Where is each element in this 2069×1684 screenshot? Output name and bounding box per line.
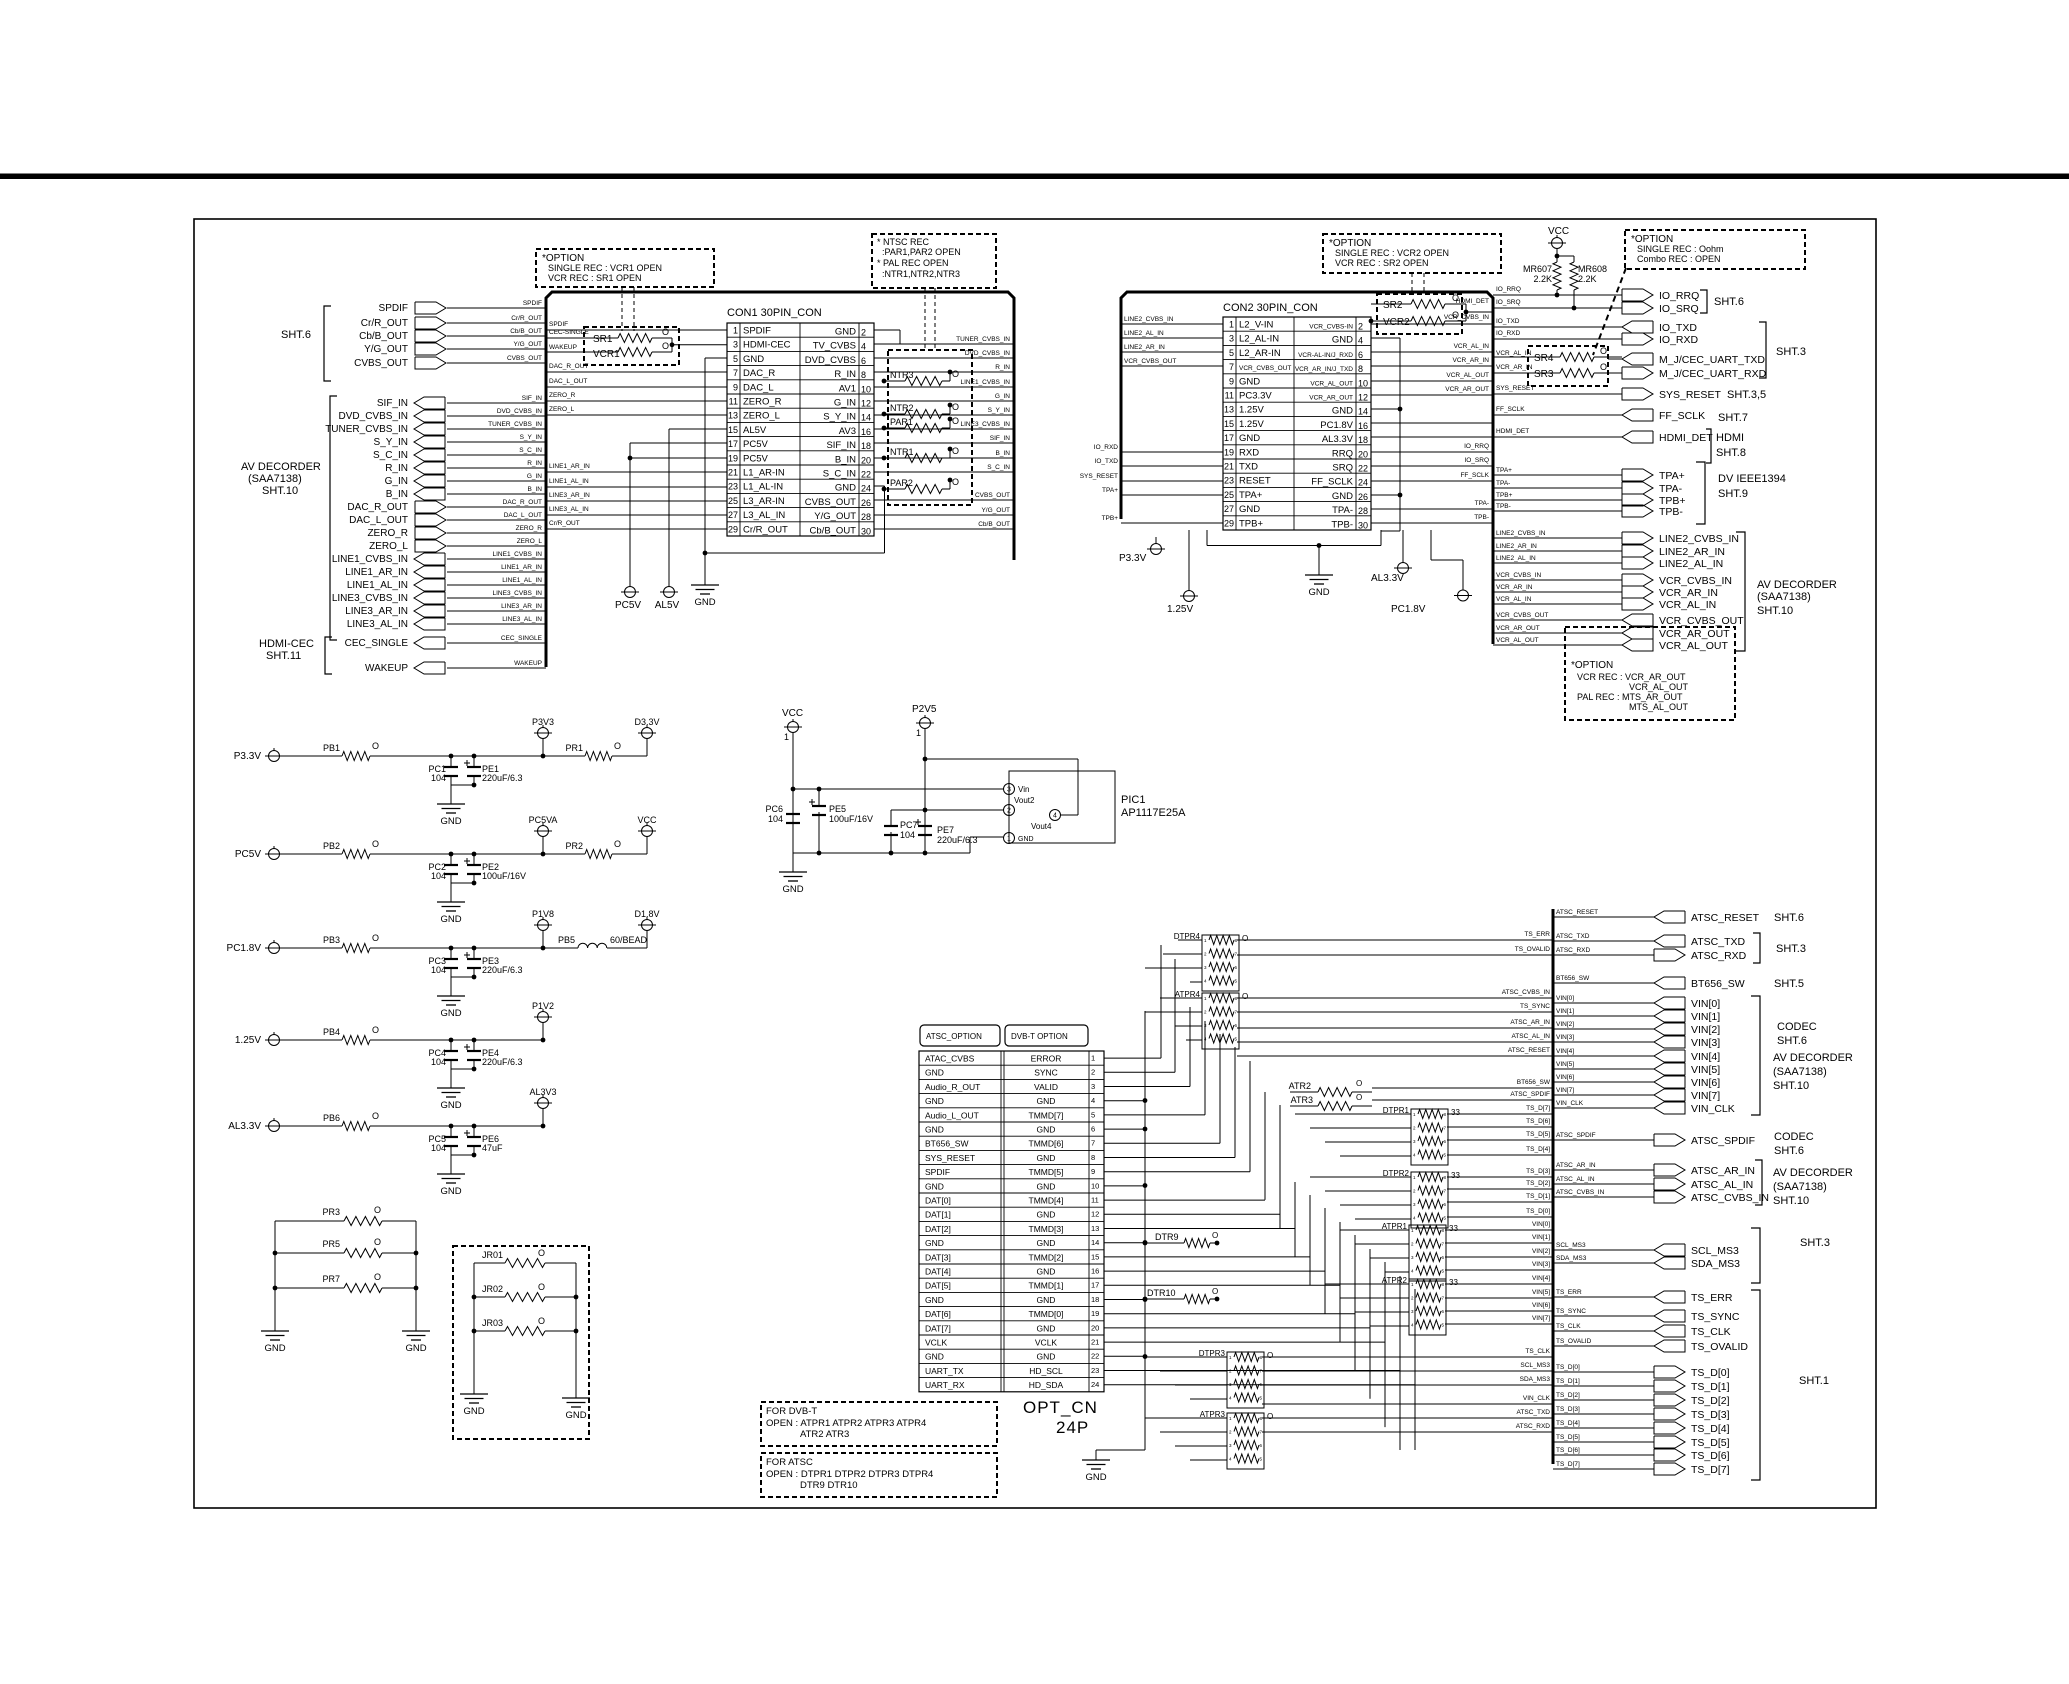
port arrow FF_SCLK: [1622, 409, 1653, 421]
svg-text:(SAA7138): (SAA7138): [1757, 591, 1811, 603]
wire IO_RXD: [1493, 338, 1622, 340]
svg-text:ATSC_CVBS_IN: ATSC_CVBS_IN: [1502, 989, 1551, 996]
svg-text:VIN[2]: VIN[2]: [1532, 1248, 1550, 1255]
svg-text:ATR2 ATR3: ATR2 ATR3: [800, 1429, 849, 1440]
wire ATSC_CVBS_IN to bus: [1237, 997, 1553, 999]
svg-text:SDA_MS3: SDA_MS3: [1691, 1258, 1740, 1270]
svg-text:P1V8: P1V8: [532, 909, 554, 919]
port arrow TS_D[1]: [1654, 1380, 1685, 1392]
svg-text:TS_SYNC: TS_SYNC: [1691, 1311, 1740, 1323]
wire TS_D[4] to bus: [1447, 1154, 1553, 1156]
wire LINE1_AR_IN bus to CON1: [546, 471, 727, 473]
svg-text:WAKEUP: WAKEUP: [365, 663, 408, 674]
wire CON2 pin VCR_AR_IN: [1371, 365, 1493, 367]
svg-text:24: 24: [1091, 1380, 1099, 1389]
svg-text:NTR2: NTR2: [890, 403, 914, 413]
power terminal AL3.3V: [269, 1121, 280, 1132]
svg-text:Cr/R_OUT: Cr/R_OUT: [743, 524, 788, 535]
svg-text:ATSC_SPDIF: ATSC_SPDIF: [1510, 1091, 1550, 1098]
wire TS_OVALID to bus: [1237, 954, 1553, 956]
svg-text:VIN[3]: VIN[3]: [1556, 1034, 1574, 1041]
svg-text:23: 23: [1224, 476, 1234, 486]
svg-text:GND: GND: [1037, 1323, 1056, 1333]
svg-text:3: 3: [1007, 787, 1011, 794]
svg-text:LINE1_CVBS_IN: LINE1_CVBS_IN: [493, 551, 543, 558]
svg-text:SPDIF: SPDIF: [379, 303, 408, 314]
svg-text:VIN[2]: VIN[2]: [1691, 1024, 1720, 1036]
svg-text:VCR_CVBS_OUT: VCR_CVBS_OUT: [1239, 365, 1291, 372]
wire B_IN to bus: [447, 493, 546, 495]
wire OPT_CN pin 15: [1104, 1256, 1310, 1258]
svg-text:IO_RXD: IO_RXD: [1094, 444, 1119, 451]
bracket SHT.6 right: [1700, 290, 1707, 313]
svg-text:LINE2_CVBS_IN: LINE2_CVBS_IN: [1124, 316, 1174, 323]
wire pin2 GND jog: [874, 329, 900, 331]
svg-text:VCR1: VCR1: [593, 349, 620, 360]
svg-text:O: O: [374, 1237, 381, 1247]
svg-text:SHT.3: SHT.3: [1776, 943, 1806, 955]
wire IO_TXD: [1493, 326, 1622, 328]
module bus outline CON1 (thick): [546, 292, 1014, 667]
svg-text:SDA_MS3: SDA_MS3: [1556, 1255, 1587, 1262]
resistor PR5 0ohm: [275, 1252, 344, 1254]
resistor PB3 0ohm: [283, 947, 342, 949]
svg-text:11: 11: [1225, 391, 1234, 401]
wire Cr/R_OUT to bus: [447, 322, 546, 324]
wire GND net vertical CON2 right: [1399, 338, 1401, 531]
wire OPT_CN pin 2: [1104, 1071, 1175, 1073]
svg-text:LINE3_CVBS_IN: LINE3_CVBS_IN: [332, 593, 408, 604]
wire CON2 pin AL3.3V: [1371, 436, 1493, 438]
svg-text:FF_SCLK: FF_SCLK: [1496, 406, 1525, 413]
wire Vout2 net: [891, 809, 1003, 811]
wire VIN[7] to bus: [1445, 1323, 1553, 1325]
wire LINE1_AR_IN to bus: [447, 571, 546, 573]
svg-text:GND: GND: [1239, 376, 1260, 387]
svg-text:25: 25: [1224, 490, 1234, 500]
svg-text:LINE2_AL_IN: LINE2_AL_IN: [1496, 555, 1536, 562]
svg-text:HDMI_DET: HDMI_DET: [1456, 298, 1489, 305]
wire ATSC_AR_IN to bus: [1237, 1027, 1553, 1029]
svg-text:3: 3: [733, 340, 738, 350]
svg-text:TS_OVALID: TS_OVALID: [1691, 1341, 1748, 1353]
svg-text:TS_D[0]: TS_D[0]: [1556, 1364, 1580, 1371]
svg-text:2: 2: [1091, 1068, 1095, 1077]
port arrow IO_RXD: [1622, 333, 1653, 345]
wire OPT_CN pin 13: [1104, 1228, 1295, 1230]
svg-text:TS_D[7]: TS_D[7]: [1556, 1461, 1580, 1468]
resistor PR7 0ohm: [275, 1287, 344, 1289]
wire CON2 pin TPB-: [1371, 522, 1493, 524]
wire OPT_CN pin 9: [1104, 1171, 1250, 1173]
svg-text:SR3: SR3: [1534, 369, 1554, 380]
svg-text:P3V3: P3V3: [532, 717, 554, 727]
svg-text:AV1: AV1: [839, 383, 856, 394]
wire ZERO_R bus to CON1: [546, 400, 727, 402]
svg-text:GND: GND: [1037, 1153, 1056, 1163]
svg-text:GND: GND: [1037, 1295, 1056, 1305]
svg-text:VCR_AR_IN: VCR_AR_IN: [1496, 584, 1533, 591]
power terminal PC1.8V: [269, 943, 280, 954]
wire OPT_CN pin 21: [1104, 1341, 1385, 1343]
svg-text:BT656_SW: BT656_SW: [1691, 978, 1745, 990]
svg-text:G_IN: G_IN: [834, 398, 856, 409]
wire OPT_CN pin 16: [1104, 1270, 1325, 1272]
svg-text:JR02: JR02: [482, 1284, 503, 1294]
capacitor PC1 104: [450, 756, 452, 767]
wire ATSC_TXD bus to port: [1553, 940, 1654, 942]
svg-text:TPA-: TPA-: [1659, 483, 1683, 495]
svg-text:VIN[4]: VIN[4]: [1691, 1051, 1720, 1063]
svg-text:GND: GND: [694, 597, 715, 608]
svg-text:TS_D[2]: TS_D[2]: [1691, 1395, 1730, 1407]
svg-text:TS_D[0]: TS_D[0]: [1691, 1367, 1730, 1379]
svg-text:SYS_RESET: SYS_RESET: [1080, 473, 1118, 480]
svg-text:SYNC: SYNC: [1034, 1068, 1058, 1078]
capacitor PE2 100uF/16V: [473, 854, 475, 865]
wire OPT_CN pin 4: [1104, 1100, 1145, 1102]
svg-text:P3.3V: P3.3V: [234, 751, 262, 762]
wire pin17/19 PC5V down: [630, 442, 727, 444]
power terminal PC1.8V: [1430, 530, 1432, 560]
ground: [437, 803, 465, 805]
svg-text:IO_TXD: IO_TXD: [1095, 458, 1119, 465]
svg-text:PR3: PR3: [322, 1207, 340, 1217]
port arrow ATSC_CVBS_IN: [1654, 1191, 1685, 1203]
svg-text:RRQ: RRQ: [1332, 448, 1353, 459]
svg-text:VIN[6]: VIN[6]: [1532, 1302, 1550, 1309]
svg-text:CON2 30PIN_CON: CON2 30PIN_CON: [1223, 302, 1318, 314]
ground left: [261, 1330, 289, 1332]
wire IO_SRQ: [1493, 307, 1622, 309]
wire OPT_CN pin 12: [1104, 1213, 1280, 1215]
ladder rails: [274, 1221, 276, 1331]
svg-text:ATSC_RESET: ATSC_RESET: [1556, 909, 1598, 916]
wire VCR_AL_IN: [1493, 603, 1622, 605]
svg-text:SYS_RESET: SYS_RESET: [1496, 385, 1534, 392]
port arrow TPA+: [1622, 469, 1653, 481]
svg-text:P3.3V: P3.3V: [1119, 553, 1147, 564]
resistor network DTPR3: [1227, 1352, 1264, 1408]
wire CON2 pin GND4: [1371, 337, 1400, 339]
svg-text:LINE1_AL_IN: LINE1_AL_IN: [502, 577, 542, 584]
svg-text:LINE2_AR_IN: LINE2_AR_IN: [1659, 546, 1725, 558]
svg-text:GND: GND: [463, 1406, 484, 1417]
svg-text:PC1.8V: PC1.8V: [1320, 420, 1353, 431]
dashed leader diagonal to SR4 box: [1593, 268, 1626, 355]
svg-text:1: 1: [1091, 1054, 1095, 1063]
svg-text:L1_AL-IN: L1_AL-IN: [743, 482, 783, 493]
svg-text:NTR1: NTR1: [890, 447, 914, 457]
svg-text:DTR9: DTR9: [1155, 1232, 1179, 1242]
wire LINE3_AR_IN bus to CON1: [546, 500, 727, 502]
svg-text:SHT.6: SHT.6: [1774, 1145, 1804, 1157]
svg-text:TS_CLK: TS_CLK: [1691, 1326, 1731, 1338]
svg-text:RESET: RESET: [1239, 476, 1271, 487]
port arrow TS_D[5]: [1654, 1436, 1685, 1448]
wire Cb/B_OUT to bus: [447, 335, 546, 337]
svg-text:Y/G_OUT: Y/G_OUT: [513, 341, 542, 348]
wire FF_SCLK: [1493, 414, 1622, 416]
svg-text:B_IN: B_IN: [996, 450, 1011, 457]
svg-text:LINE1_AL_IN: LINE1_AL_IN: [347, 580, 408, 591]
option dashed box SR4/SR3: [1528, 346, 1608, 386]
bracket SHT.6 group: [324, 306, 331, 381]
svg-text:FF_SCLK: FF_SCLK: [1659, 410, 1705, 422]
svg-text:20: 20: [1091, 1323, 1099, 1332]
option dashed box SR1/VCR1: [584, 327, 679, 365]
wire TS_D[3] bus to port: [1553, 1413, 1654, 1415]
svg-text:PC5V: PC5V: [615, 600, 641, 611]
svg-text:L2_AR-IN: L2_AR-IN: [1239, 348, 1281, 359]
svg-text:S_C_IN: S_C_IN: [373, 450, 408, 461]
svg-text:AV DECORDER: AV DECORDER: [241, 461, 321, 473]
svg-text:ERROR: ERROR: [1031, 1054, 1062, 1064]
svg-text:BT656_SW: BT656_SW: [1517, 1079, 1551, 1086]
wire CON2 pin GND26: [1371, 494, 1400, 496]
svg-text:30: 30: [861, 526, 871, 536]
svg-text:TPA-: TPA-: [1496, 480, 1510, 487]
svg-text:PB2: PB2: [323, 841, 340, 851]
svg-text:DAC_L_OUT: DAC_L_OUT: [504, 512, 542, 519]
svg-text:GND: GND: [1037, 1267, 1056, 1277]
wire CON2 pin VCR_AL_IN: [1371, 351, 1493, 353]
port arrow TPB+: [1622, 494, 1653, 506]
svg-text:PR2: PR2: [565, 841, 583, 851]
ground right: [402, 1330, 430, 1332]
svg-text:WAKEUP: WAKEUP: [514, 660, 542, 667]
wire M_J/CEC_UART_TXD: [1608, 358, 1622, 360]
svg-text:VCR_AL_OUT: VCR_AL_OUT: [1629, 682, 1689, 692]
svg-text:Audio_R_OUT: Audio_R_OUT: [925, 1082, 980, 1092]
wire SDA_MS3 bus to port: [1553, 1262, 1654, 1264]
svg-text:TS_D[6]: TS_D[6]: [1556, 1447, 1580, 1454]
svg-text:1: 1: [784, 732, 789, 742]
svg-text:TPB-: TPB-: [1496, 503, 1511, 510]
svg-text:28: 28: [1358, 506, 1368, 516]
svg-text:MR607: MR607: [1523, 264, 1552, 274]
wire mesh verticals (array region): [1160, 945, 1162, 1058]
wire ZERO_R to bus: [447, 532, 546, 534]
port arrow VCR_CVBS_OUT: [1622, 614, 1653, 626]
svg-text:SR2: SR2: [1383, 300, 1403, 311]
svg-text:B_IN: B_IN: [386, 489, 408, 500]
svg-text:TPB+: TPB+: [1239, 518, 1263, 529]
svg-text:Vout4: Vout4: [1031, 822, 1052, 831]
wire TPA+: [1493, 474, 1622, 476]
resistor JR01 0ohm: [474, 1262, 505, 1264]
svg-text:DTR9 DTR10: DTR9 DTR10: [800, 1480, 858, 1491]
svg-text:AP1117E25A: AP1117E25A: [1121, 807, 1186, 819]
svg-text:IO_SRQ: IO_SRQ: [1659, 303, 1699, 315]
svg-text:O: O: [538, 1248, 545, 1258]
wire OPT_CN pin 14: [1104, 1242, 1145, 1244]
svg-text:6: 6: [1358, 350, 1363, 360]
svg-text:TUNER_CVBS_IN: TUNER_CVBS_IN: [956, 336, 1010, 343]
svg-text:MTS_AL_OUT: MTS_AL_OUT: [1629, 702, 1689, 712]
wire ATSC_TXD to bus: [1262, 1417, 1553, 1419]
svg-text:220uF/6.3: 220uF/6.3: [482, 965, 523, 975]
svg-text:PE5: PE5: [829, 804, 846, 814]
wire VCR_CVBS_OUT: [1493, 619, 1622, 621]
power terminal D1.8V: [646, 931, 648, 949]
svg-text:O: O: [538, 1316, 545, 1326]
svg-text:CON1 30PIN_CON: CON1 30PIN_CON: [727, 307, 822, 319]
port arrow VCR_AL_OUT: [1622, 639, 1653, 651]
svg-text:CVBS_OUT: CVBS_OUT: [507, 355, 542, 362]
svg-text:24: 24: [1358, 478, 1368, 488]
svg-text:TMMD[6]: TMMD[6]: [1029, 1139, 1064, 1149]
svg-text:GND: GND: [440, 1186, 461, 1197]
svg-text:ZERO_L: ZERO_L: [743, 411, 780, 422]
svg-text:TS_D[2]: TS_D[2]: [1526, 1180, 1550, 1187]
svg-text:SIF_IN: SIF_IN: [990, 435, 1011, 442]
ground: [437, 995, 465, 997]
port arrow ATSC_RXD: [1654, 949, 1685, 961]
pin 1 GND: [1004, 833, 1015, 844]
bracket HDMI-CEC group: [325, 637, 332, 674]
wire ATSC_AR_IN bus to port: [1553, 1169, 1654, 1171]
svg-text:33: 33: [1451, 1108, 1460, 1117]
svg-text:OPT_CN: OPT_CN: [1023, 1398, 1098, 1417]
wire SCL_MS3 to bus: [1262, 1370, 1553, 1372]
svg-text:8: 8: [861, 370, 866, 380]
wire CON2 pin RRQ: [1371, 451, 1493, 453]
svg-text:4: 4: [1358, 336, 1363, 346]
svg-text:PC5V: PC5V: [743, 453, 768, 464]
svg-text:LINE3_CVBS_IN: LINE3_CVBS_IN: [961, 421, 1011, 428]
svg-text:TS_CLK: TS_CLK: [1525, 1348, 1550, 1355]
svg-text:100uF/16V: 100uF/16V: [482, 871, 526, 881]
pin 4 Vout4: [1050, 810, 1061, 821]
svg-text:S_Y_IN: S_Y_IN: [823, 412, 856, 423]
svg-text:S_Y_IN: S_Y_IN: [520, 434, 543, 441]
svg-text:DAT[1]: DAT[1]: [925, 1210, 951, 1220]
svg-text:DV IEEE1394: DV IEEE1394: [1718, 473, 1786, 485]
wire VIN[1] bus to port: [1553, 1015, 1654, 1017]
wire LINE2_CVBS_IN: [1493, 537, 1622, 539]
svg-text:SHT.10: SHT.10: [262, 485, 298, 497]
svg-text:GND: GND: [440, 816, 461, 827]
svg-text:VIN[0]: VIN[0]: [1556, 995, 1574, 1002]
svg-text:100uF/16V: 100uF/16V: [829, 814, 873, 824]
svg-text:DTR10: DTR10: [1147, 1288, 1176, 1298]
svg-text:9: 9: [733, 382, 738, 392]
svg-text:ATSC_RESET: ATSC_RESET: [1691, 912, 1760, 924]
port arrow TS_D[6]: [1654, 1449, 1685, 1461]
svg-text:DVD_CVBS_IN: DVD_CVBS_IN: [497, 408, 542, 415]
svg-text:1: 1: [733, 326, 738, 336]
bracket HDMI right: [1706, 429, 1711, 463]
power terminal PC5V below CON1: [625, 587, 636, 598]
bracket TS group SHT.1: [1751, 1290, 1760, 1480]
svg-text:11: 11: [729, 397, 738, 407]
svg-text:DAC_R_OUT: DAC_R_OUT: [549, 363, 588, 370]
svg-text:ATSC_CVBS_IN: ATSC_CVBS_IN: [1691, 1192, 1769, 1204]
svg-text:AV DECORDER: AV DECORDER: [1773, 1052, 1853, 1064]
svg-text:O: O: [374, 1205, 381, 1215]
svg-text:R_IN: R_IN: [527, 460, 542, 467]
wire TS_ERR bus to port: [1553, 1296, 1654, 1298]
svg-text:SHT.10: SHT.10: [1773, 1080, 1809, 1092]
bracket AV DECORDER right: [1736, 532, 1745, 651]
wire CON2 pin PC1.8V: [1371, 422, 1493, 424]
svg-text:O: O: [952, 402, 959, 412]
svg-text:PC5V: PC5V: [235, 849, 261, 860]
svg-text:TS_D[4]: TS_D[4]: [1526, 1146, 1550, 1153]
svg-text:GND: GND: [1239, 504, 1260, 515]
svg-text:GND: GND: [925, 1352, 944, 1362]
svg-text:TS_D[7]: TS_D[7]: [1691, 1464, 1730, 1476]
svg-text:PR1: PR1: [565, 743, 583, 753]
svg-text:SRQ: SRQ: [1332, 463, 1353, 474]
wire R_IN CON1 to module edge: [874, 371, 1014, 373]
svg-text:GND: GND: [1085, 1472, 1106, 1483]
svg-text:10: 10: [1358, 378, 1368, 388]
svg-text:VIN[7]: VIN[7]: [1691, 1090, 1720, 1102]
svg-text:P2V5: P2V5: [912, 704, 937, 715]
svg-text:TS_D[2]: TS_D[2]: [1556, 1392, 1580, 1399]
port arrow IO_TXD: [1622, 321, 1653, 333]
svg-text:S_C_IN: S_C_IN: [519, 447, 542, 454]
svg-text:PC5V: PC5V: [743, 439, 768, 450]
port arrow TS_ERR: [1654, 1291, 1685, 1303]
note box NTSC/PAL REC: [872, 234, 996, 288]
port arrow TS_SYNC: [1654, 1310, 1685, 1322]
wire DAC_R_OUT to bus: [447, 506, 546, 508]
svg-text:VCR_AL_IN: VCR_AL_IN: [1496, 350, 1532, 357]
svg-text:VIN[1]: VIN[1]: [1556, 1008, 1574, 1015]
svg-text:LINE3_AR_IN: LINE3_AR_IN: [345, 606, 408, 617]
svg-text:GND: GND: [1037, 1181, 1056, 1191]
svg-text:ZERO_R: ZERO_R: [549, 392, 576, 399]
svg-text:21: 21: [728, 468, 738, 478]
svg-text:Cb/B_OUT: Cb/B_OUT: [810, 525, 857, 536]
svg-text:PIC1: PIC1: [1121, 794, 1145, 806]
svg-text:SINGLE REC : VCR2 OPEN: SINGLE REC : VCR2 OPEN: [1335, 248, 1449, 258]
wire CVBS_OUT to bus: [447, 362, 546, 364]
power terminal AL5V below CON1: [664, 587, 675, 598]
svg-text:13: 13: [1224, 405, 1234, 415]
wire LINE3_AR_IN to bus: [447, 610, 546, 612]
wire LINE3_CVBS_IN CON1 to module edge: [874, 428, 1014, 430]
power terminal PC5VA: [542, 837, 544, 855]
svg-text:GND: GND: [405, 1343, 426, 1354]
svg-text:B_IN: B_IN: [528, 486, 543, 493]
svg-text:SHT.6: SHT.6: [281, 329, 311, 341]
svg-text:SYS_RESET: SYS_RESET: [925, 1153, 975, 1163]
bracket VIN group: [1751, 996, 1760, 1115]
svg-text:GND: GND: [782, 884, 803, 895]
svg-text:PC1.8V: PC1.8V: [227, 943, 262, 954]
resistor network ATPR1: [1409, 1225, 1446, 1281]
svg-text:PR7: PR7: [322, 1274, 340, 1284]
wire CON2 pin SRQ: [1371, 465, 1493, 467]
svg-text:PAR2: PAR2: [890, 478, 913, 488]
svg-text:14: 14: [1091, 1238, 1099, 1247]
wire ZERO_L to bus: [447, 545, 546, 547]
svg-text:LINE2_AR_IN: LINE2_AR_IN: [1496, 543, 1537, 550]
wire ATSC_SPDIF to bus: [1372, 1099, 1553, 1101]
svg-text:VCR_AR_OUT: VCR_AR_OUT: [1309, 395, 1353, 402]
pin 2 Vout2: [1004, 805, 1015, 816]
svg-text:Combo REC : OPEN: Combo REC : OPEN: [1637, 254, 1721, 264]
port arrow M_J/CEC_UART_RXD: [1622, 367, 1653, 379]
svg-text:SHT.1: SHT.1: [1799, 1375, 1829, 1387]
svg-text:GND: GND: [1332, 491, 1353, 502]
svg-text:ATR2: ATR2: [1289, 1081, 1311, 1091]
svg-text:TMMD[0]: TMMD[0]: [1029, 1309, 1064, 1319]
